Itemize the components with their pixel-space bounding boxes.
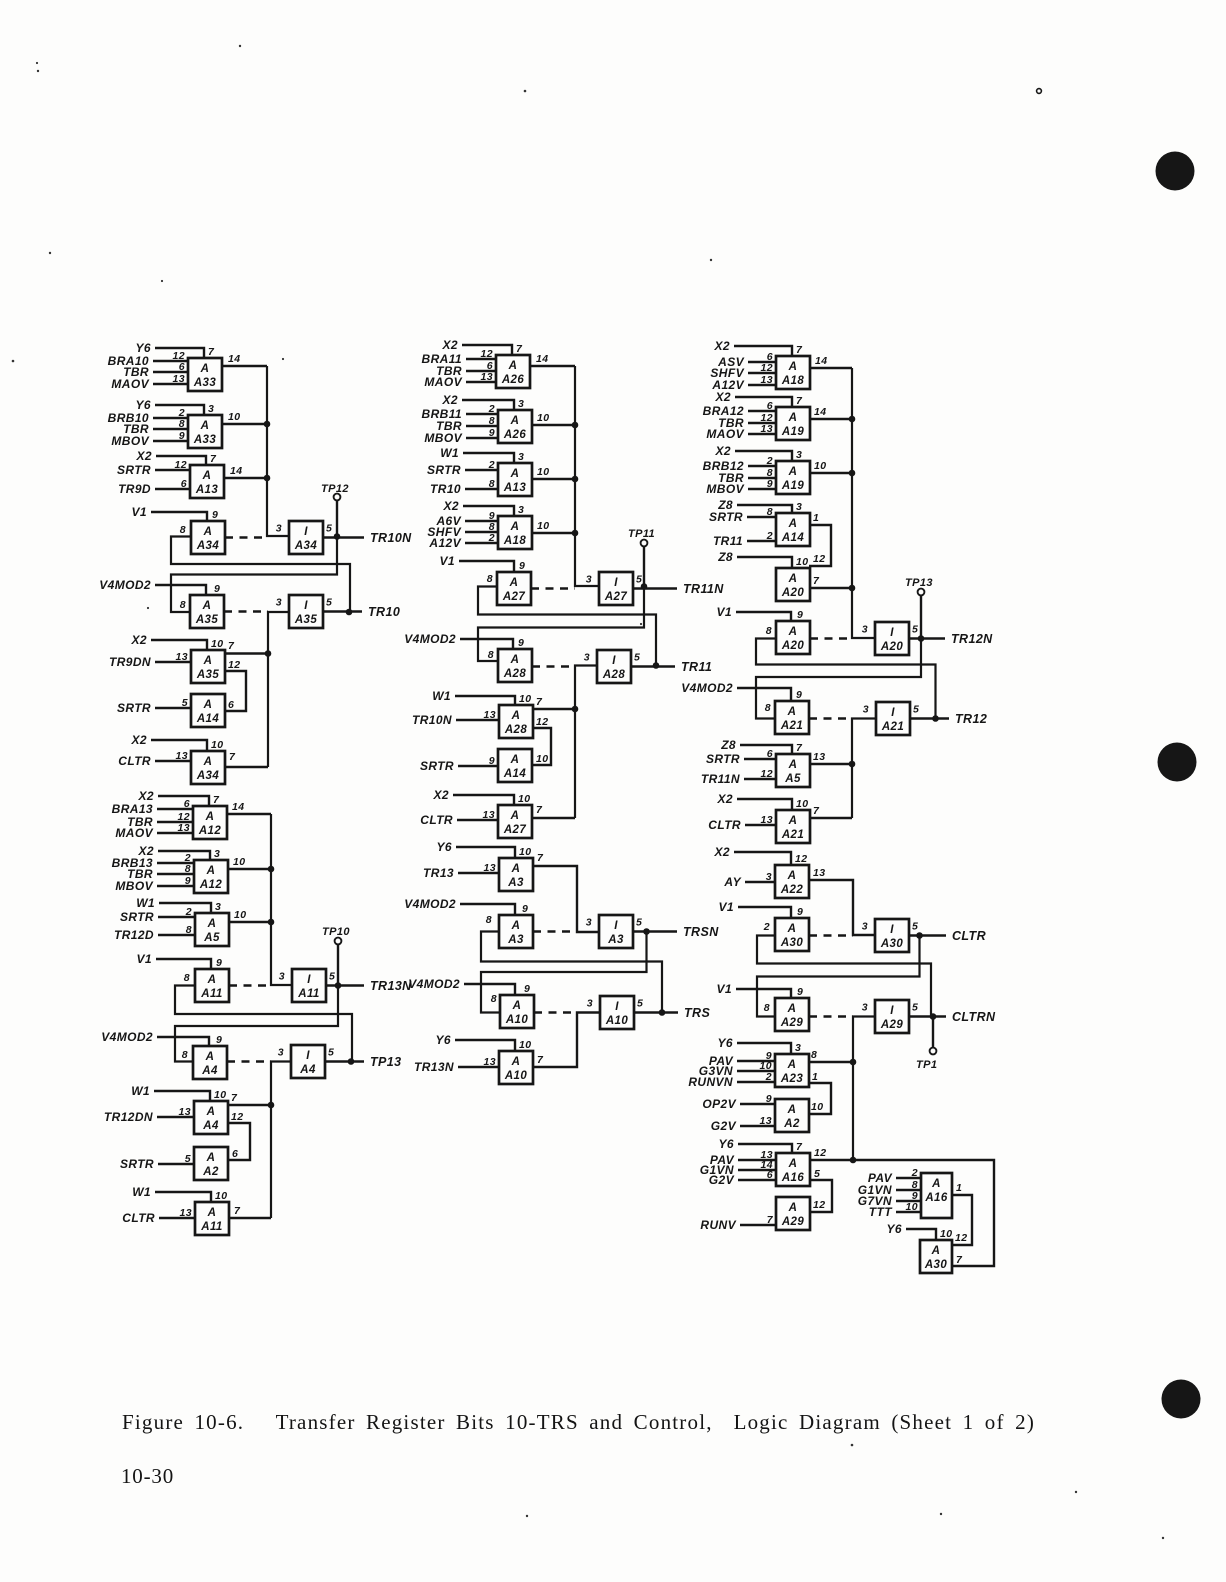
svg-text:A: A <box>787 923 797 935</box>
test point TP1 <box>916 1017 937 1072</box>
AND gate A18 (inputs X2,A6V,SHFV,A12V) <box>427 499 532 550</box>
svg-text:A: A <box>203 699 213 711</box>
svg-text:9: 9 <box>216 1034 222 1046</box>
svg-text:X2: X2 <box>715 390 731 404</box>
junction A13 output on trunk <box>264 475 271 482</box>
svg-text:A: A <box>787 1059 797 1071</box>
output wire A35b pin 7 to trunk <box>225 640 268 654</box>
feedback wire A20 pin8 to TR12 node <box>756 639 936 719</box>
svg-text:7: 7 <box>796 344 803 356</box>
svg-text:9: 9 <box>797 609 803 621</box>
svg-text:W1: W1 <box>136 896 155 910</box>
svg-text:A: A <box>202 600 212 612</box>
pin 10 label of A14 middle <box>536 753 548 765</box>
svg-text:8: 8 <box>765 702 771 714</box>
svg-text:TR9D: TR9D <box>118 482 151 496</box>
feedback wire A35 pin8 to TR10N node <box>171 537 337 613</box>
svg-text:A: A <box>788 1202 798 1214</box>
pin 10 label of A2 right <box>811 1101 823 1113</box>
svg-text:14: 14 <box>228 353 240 365</box>
test point TP12 <box>321 483 349 537</box>
svg-text:A: A <box>207 1207 217 1219</box>
svg-text:V4MOD2: V4MOD2 <box>101 1030 153 1044</box>
svg-text:A4: A4 <box>201 1065 218 1077</box>
latch AND gate A-A3 (control TRSN) <box>404 897 533 948</box>
registration dot upper right <box>1156 152 1195 191</box>
svg-text:V1: V1 <box>717 605 732 619</box>
svg-text:Y6: Y6 <box>437 840 452 854</box>
svg-text:9: 9 <box>796 689 802 701</box>
output wire A21b pin 7 to trunk <box>810 805 852 818</box>
svg-text:A23: A23 <box>780 1073 804 1085</box>
collector trunk wire for TP13 group <box>271 1062 291 1219</box>
AND gate A2 (inputs OP2V,G2V) <box>702 1093 809 1133</box>
svg-text:A21: A21 <box>780 720 803 732</box>
inverter I-A11 (bit13 TR13N) <box>279 969 336 1002</box>
svg-text:13: 13 <box>180 1207 192 1219</box>
inverter I-A27 (bit11 TR11N) <box>586 572 643 605</box>
svg-text:3: 3 <box>586 917 592 929</box>
svg-text:A: A <box>510 654 520 666</box>
svg-text:13: 13 <box>761 814 773 826</box>
AND gate A28 second section (inputs W1,TR10N) <box>412 689 533 738</box>
svg-text:8: 8 <box>487 573 493 585</box>
AND gate A5 (inputs Z8,SRTR,TR11N) <box>701 738 810 787</box>
svg-text:10: 10 <box>940 1228 952 1240</box>
svg-text:TRSN: TRSN <box>683 925 719 939</box>
output wire A28b pin 7 to trunk <box>533 696 575 709</box>
svg-text:X2: X2 <box>138 789 154 803</box>
output wire A5b pin 13 to trunk <box>809 751 852 764</box>
svg-text:10: 10 <box>796 556 808 568</box>
svg-text:A: A <box>511 710 521 722</box>
svg-text:A13: A13 <box>503 482 527 494</box>
svg-text:8: 8 <box>488 649 494 661</box>
svg-text:9: 9 <box>519 560 525 572</box>
svg-text:TR12: TR12 <box>955 712 987 726</box>
svg-text:12: 12 <box>761 768 773 780</box>
svg-text:9: 9 <box>185 875 191 887</box>
svg-text:A11: A11 <box>297 988 319 1000</box>
junction node TR11 <box>653 662 660 669</box>
output wire of I-A34 to node TR10N <box>323 536 364 538</box>
svg-text:A28: A28 <box>504 724 528 736</box>
svg-text:9: 9 <box>766 1093 772 1105</box>
svg-text:TR12D: TR12D <box>114 928 154 942</box>
svg-text:I: I <box>615 1001 619 1013</box>
feedback wire A11 pin8 to TP13 node <box>175 986 352 1062</box>
svg-text:A: A <box>510 810 520 822</box>
svg-text:8: 8 <box>491 993 497 1005</box>
pin 12 label of A30b <box>955 1232 967 1244</box>
svg-text:10: 10 <box>519 693 531 705</box>
svg-text:RUNVN: RUNVN <box>688 1075 733 1089</box>
svg-text:6: 6 <box>767 1169 773 1181</box>
output wire A13 pin 14 to trunk <box>224 465 267 478</box>
svg-text:SRTR: SRTR <box>420 759 454 773</box>
svg-text:TR11: TR11 <box>713 534 743 548</box>
inverter I-A21 (bit12 TR12) <box>863 702 920 735</box>
svg-text:7: 7 <box>796 1141 803 1153</box>
svg-text:8: 8 <box>182 1049 188 1061</box>
dashed collector wire from A-A28 to inverter input <box>532 665 575 667</box>
net label TR13N <box>370 979 412 993</box>
svg-text:TP1: TP1 <box>916 1059 937 1071</box>
svg-text:3: 3 <box>518 451 524 463</box>
output wire A28b pin 12 down to A14 pin 10 <box>533 716 551 765</box>
svg-text:I: I <box>612 655 616 667</box>
svg-text:TR10N: TR10N <box>412 713 452 727</box>
output wire A16b pin 1 down to A30 pin 12 <box>952 1182 972 1245</box>
svg-text:I: I <box>891 707 895 719</box>
registration dot lower right <box>1162 1380 1201 1419</box>
svg-text:A12V: A12V <box>428 536 461 550</box>
svg-text:A26: A26 <box>501 374 525 386</box>
svg-text:V4MOD2: V4MOD2 <box>681 681 733 695</box>
AND gate A20 (input Z8) <box>717 550 810 601</box>
svg-text:3: 3 <box>584 652 590 664</box>
svg-text:1: 1 <box>956 1182 962 1194</box>
latch AND gate A-A11 (bit13 TR13N) <box>137 952 229 1002</box>
inverter I-A20 (bit12 TR12N) <box>862 622 919 655</box>
svg-text:A: A <box>788 361 798 373</box>
junction node TR10 <box>346 609 353 616</box>
svg-text:8: 8 <box>486 914 492 926</box>
svg-text:13: 13 <box>484 862 496 874</box>
svg-text:10: 10 <box>228 411 240 423</box>
svg-text:TR13N: TR13N <box>414 1060 454 1074</box>
latch AND gate A-A34 (bit10 TR10N) <box>132 505 225 554</box>
latch AND gate A-A10 (control TRS) <box>408 977 534 1028</box>
svg-text:A: A <box>207 974 217 986</box>
svg-text:7: 7 <box>516 343 523 355</box>
output wire A18r pin 14 to trunk <box>810 355 852 368</box>
svg-text:12: 12 <box>795 853 807 865</box>
svg-text:A: A <box>510 468 520 480</box>
junction node TR12 <box>932 715 939 722</box>
svg-text:5: 5 <box>634 652 640 664</box>
svg-text:A35: A35 <box>196 669 220 681</box>
svg-text:Y6: Y6 <box>719 1137 734 1151</box>
svg-text:RUNV: RUNV <box>700 1218 736 1232</box>
net label TR11 <box>681 660 712 674</box>
svg-text:X2: X2 <box>442 338 458 352</box>
svg-text:9: 9 <box>212 509 218 521</box>
output wire A22 pin 13 to CLTR inverter <box>808 867 875 935</box>
svg-text:8: 8 <box>184 972 190 984</box>
svg-text:A29: A29 <box>781 1216 805 1228</box>
svg-text:3: 3 <box>862 921 868 933</box>
svg-text:2: 2 <box>488 532 495 544</box>
svg-text:7: 7 <box>956 1254 963 1266</box>
svg-text:A: A <box>510 415 520 427</box>
svg-text:A12: A12 <box>198 825 222 837</box>
svg-text:X2: X2 <box>443 499 459 513</box>
svg-text:W1: W1 <box>131 1084 150 1098</box>
svg-text:9: 9 <box>216 957 222 969</box>
latch AND gate A-A4 (TP13 control) <box>101 1030 227 1079</box>
junction A18m output on trunk <box>572 530 579 537</box>
svg-text:12: 12 <box>955 1232 967 1244</box>
output wire A19b pin 10 to trunk <box>809 460 852 473</box>
output wire A18m pin 10 to trunk <box>532 520 575 533</box>
feedback wire A30 pin2 to CLTRN node <box>757 936 931 1017</box>
latch AND gate A-A30 (control CLTR) <box>719 900 809 951</box>
svg-text:A33: A33 <box>193 377 217 389</box>
svg-text:TP12: TP12 <box>321 483 349 495</box>
AND gate A19 second section (inputs X2,BRB12,TBR,MBOV) <box>703 444 810 496</box>
AND gate A12 second section (inputs X2,BRB13,TBR,MBOV) <box>112 844 228 893</box>
svg-text:A33: A33 <box>193 434 217 446</box>
dashed collector wire from A-A4 to inverter input <box>227 1060 271 1062</box>
output wire A23 pin 1 down to A2 pin 10 <box>808 1071 831 1114</box>
svg-text:3: 3 <box>278 1047 284 1059</box>
svg-text:TR13N: TR13N <box>370 979 412 993</box>
svg-text:3: 3 <box>862 1002 868 1014</box>
svg-text:CLTR: CLTR <box>118 754 151 768</box>
feedback wire A28 pin8 to TR11N node <box>478 587 644 662</box>
svg-text:A: A <box>200 420 210 432</box>
svg-text:I: I <box>890 924 894 936</box>
svg-text:2: 2 <box>488 403 495 415</box>
svg-text:MBOV: MBOV <box>111 434 149 448</box>
svg-text:TRS: TRS <box>684 1006 710 1020</box>
svg-text:2: 2 <box>766 455 773 467</box>
svg-text:9: 9 <box>518 637 524 649</box>
svg-text:14: 14 <box>814 406 826 418</box>
svg-text:A21: A21 <box>881 721 904 733</box>
AND gate A13 (inputs W1,SRTR,TR10) <box>427 446 532 496</box>
svg-text:TR11N: TR11N <box>683 582 724 596</box>
AND gate A18 (inputs X2,ASV,SHFV,A12V) <box>710 339 810 392</box>
AND gate A4 second section (inputs W1,TR12DN) <box>104 1084 228 1134</box>
output wire A16a pin 5 down to A29 pin 12 <box>809 1168 832 1212</box>
svg-text:13: 13 <box>761 374 773 386</box>
svg-text:14: 14 <box>230 465 242 477</box>
svg-text:TR9DN: TR9DN <box>109 655 151 669</box>
svg-text:13: 13 <box>178 822 190 834</box>
AND gate A29 (input RUNV) <box>700 1197 810 1232</box>
svg-text:13: 13 <box>179 1106 191 1118</box>
svg-text:SRTR: SRTR <box>709 510 743 524</box>
junction node CLTR <box>916 932 923 939</box>
svg-text:13: 13 <box>761 423 773 435</box>
svg-text:3: 3 <box>862 624 868 636</box>
net label TRS <box>684 1006 710 1020</box>
output wire A16a pin 12 to trunk and A30 pin 7 loop <box>810 1147 994 1266</box>
svg-text:I: I <box>304 600 308 612</box>
output wire A12 pin 14 to trunk <box>227 801 271 814</box>
svg-text:8: 8 <box>766 625 772 637</box>
page number 10-30 <box>121 1464 174 1489</box>
stray mark small circle <box>1037 89 1042 94</box>
svg-text:10: 10 <box>537 466 549 478</box>
svg-text:5: 5 <box>636 574 642 586</box>
inverter I-A3 (control TRSN) <box>586 915 643 948</box>
svg-text:A: A <box>788 412 798 424</box>
output wire A19a pin 14 to trunk <box>809 406 852 419</box>
junction A33b output on trunk <box>264 421 271 428</box>
svg-text:A: A <box>931 1245 941 1257</box>
svg-text:SRTR: SRTR <box>120 910 154 924</box>
svg-text:12: 12 <box>536 716 548 728</box>
svg-text:10: 10 <box>537 520 549 532</box>
svg-text:7: 7 <box>536 804 543 816</box>
svg-text:A28: A28 <box>602 669 626 681</box>
svg-text:7: 7 <box>229 751 236 763</box>
svg-text:A16: A16 <box>781 1172 805 1184</box>
pin 6 label of A2 <box>232 1148 238 1160</box>
svg-text:2: 2 <box>488 459 495 471</box>
svg-text:A: A <box>788 815 798 827</box>
svg-text:13: 13 <box>176 651 188 663</box>
svg-text:AY: AY <box>723 875 741 889</box>
svg-text:8: 8 <box>767 506 773 518</box>
AND gate A26 second section (inputs X2,BRB11,TBR,MBOV) <box>422 393 532 445</box>
output wire A11b pin 7 to trunk <box>230 1205 271 1218</box>
output wire of I-A29 to node CLTRN <box>909 1015 946 1017</box>
svg-text:A: A <box>511 1056 521 1068</box>
collector trunk wire for TR11 group <box>575 666 597 819</box>
svg-text:3: 3 <box>276 523 282 535</box>
net label CLTR <box>952 929 986 943</box>
svg-text:W1: W1 <box>440 446 459 460</box>
svg-text:TP13: TP13 <box>370 1055 401 1069</box>
svg-text:TR12N: TR12N <box>951 632 993 646</box>
svg-text:A13: A13 <box>195 484 219 496</box>
dashed collector wire from A-A21 to inverter input <box>809 717 852 719</box>
junction A4b output on trunk <box>268 1102 275 1109</box>
svg-text:TR12DN: TR12DN <box>104 1110 153 1124</box>
svg-text:TTT: TTT <box>869 1205 893 1219</box>
output wire A26b pin 10 to trunk <box>532 412 575 425</box>
svg-text:9: 9 <box>524 983 530 995</box>
dashed collector wire from A-A35 to inverter input <box>224 610 268 612</box>
svg-text:3: 3 <box>586 574 592 586</box>
output wire A10g pin 7 to TRS inverter <box>533 1013 600 1068</box>
output wire A14r pin 1 down to A20 pin 12 <box>809 512 831 566</box>
svg-text:9: 9 <box>522 903 528 915</box>
svg-text:7: 7 <box>536 696 543 708</box>
svg-text:OP2V: OP2V <box>702 1097 736 1111</box>
collector trunk wire for TR13N group <box>271 814 292 985</box>
net label TRSN <box>683 925 719 939</box>
svg-text:5: 5 <box>182 697 188 709</box>
latch AND gate A-A28 (bit11 TR11) <box>404 632 532 682</box>
svg-text:9: 9 <box>797 906 803 918</box>
feedback wire A29 pin8 to CLTR node <box>757 936 920 1017</box>
inverter I-A35 (bit10 TR10) <box>276 595 333 628</box>
svg-text:14: 14 <box>232 801 244 813</box>
output wire of I-A11 to node TR13N <box>326 984 364 986</box>
AND gate A14 (inputs Z8,SRTR,TR11) <box>709 498 810 548</box>
output wire of I-A3 to node TRSN <box>633 930 677 932</box>
svg-text:5: 5 <box>912 624 918 636</box>
AND gate A33 (inputs Y6,BRA10,TBR,MAOV) <box>108 341 222 391</box>
output wire of I-A35 to node TR10 <box>323 610 362 612</box>
dashed collector wire from A-A30 to inverter input <box>809 934 853 936</box>
svg-text:A20: A20 <box>781 640 805 652</box>
svg-text:2: 2 <box>185 906 192 918</box>
svg-text:12: 12 <box>228 659 240 671</box>
svg-text:2: 2 <box>763 921 770 933</box>
pin 6 label of A14 <box>228 699 234 711</box>
svg-text:6: 6 <box>181 478 187 490</box>
svg-text:5: 5 <box>912 1002 918 1014</box>
svg-text:SRTR: SRTR <box>117 701 151 715</box>
svg-text:A: A <box>206 865 216 877</box>
svg-text:12: 12 <box>813 553 825 565</box>
junction A35b output on trunk <box>265 650 272 657</box>
test point TP11 <box>628 528 655 587</box>
svg-text:X2: X2 <box>136 449 152 463</box>
pin 12 label of A20a <box>813 553 825 565</box>
svg-text:Z8: Z8 <box>717 550 733 564</box>
svg-text:TR10N: TR10N <box>370 531 412 545</box>
net label CLTRN <box>952 1010 996 1024</box>
junction node TRS <box>659 1009 666 1016</box>
svg-text:A: A <box>207 918 217 930</box>
latch AND gate A-A27 (bit11 TR11N) <box>440 554 531 605</box>
svg-text:A: A <box>206 1106 216 1118</box>
junction A12b output on trunk <box>268 866 275 873</box>
svg-text:A34: A34 <box>294 540 318 552</box>
output wire A4b pin 12 down to A2 pin 6 <box>228 1111 250 1160</box>
AND gate A33 second section (inputs Y6,BRB10,TBR,MBOV) <box>108 398 222 448</box>
dashed collector wire from A-A20 to inverter input <box>810 637 852 639</box>
svg-text:3: 3 <box>214 848 220 860</box>
svg-text:6: 6 <box>228 699 234 711</box>
output wire A35b pin 12 down to A14 pin 6 <box>225 659 246 711</box>
output wire A26 pin 14 to trunk <box>530 353 575 366</box>
svg-text:I: I <box>890 627 894 639</box>
svg-text:A: A <box>787 1003 797 1015</box>
svg-text:5: 5 <box>328 1047 334 1059</box>
svg-text:2: 2 <box>765 1071 772 1083</box>
svg-text:13: 13 <box>173 373 185 385</box>
svg-text:7: 7 <box>234 1205 241 1217</box>
AND gate A16 (inputs Y6,PAV,G1VN,G2V) <box>700 1137 810 1187</box>
net label TR12N <box>951 632 993 646</box>
svg-text:13: 13 <box>813 751 825 763</box>
svg-text:10: 10 <box>519 1039 531 1051</box>
svg-text:A: A <box>511 920 521 932</box>
collector trunk wire for TR12 group <box>852 719 876 819</box>
svg-text:A: A <box>931 1178 941 1190</box>
dashed collector wire from A-A3 to inverter input <box>533 930 577 932</box>
svg-text:A29: A29 <box>780 1017 804 1029</box>
svg-text:Y6: Y6 <box>136 341 151 355</box>
svg-text:A20: A20 <box>781 587 805 599</box>
svg-text:1: 1 <box>813 512 819 524</box>
inverter I-A30 (control CLTR) <box>862 919 919 952</box>
svg-text:10: 10 <box>519 846 531 858</box>
svg-text:14: 14 <box>815 355 827 367</box>
svg-text:X2: X2 <box>714 845 730 859</box>
svg-text:13: 13 <box>484 1056 496 1068</box>
test point TP13 <box>905 577 933 639</box>
svg-text:V1: V1 <box>440 554 455 568</box>
svg-text:7: 7 <box>813 805 820 817</box>
dashed collector wire from A-A11 to inverter input <box>229 984 271 986</box>
svg-text:A19: A19 <box>781 426 805 438</box>
latch AND gate A-A35 (bit10 TR10) <box>99 578 224 628</box>
output wire A12b pin 10 to trunk <box>228 856 271 869</box>
junction node TR10N <box>334 533 341 540</box>
svg-text:A: A <box>787 706 797 718</box>
svg-text:CLTRN: CLTRN <box>952 1010 996 1024</box>
svg-text:A: A <box>788 518 798 530</box>
